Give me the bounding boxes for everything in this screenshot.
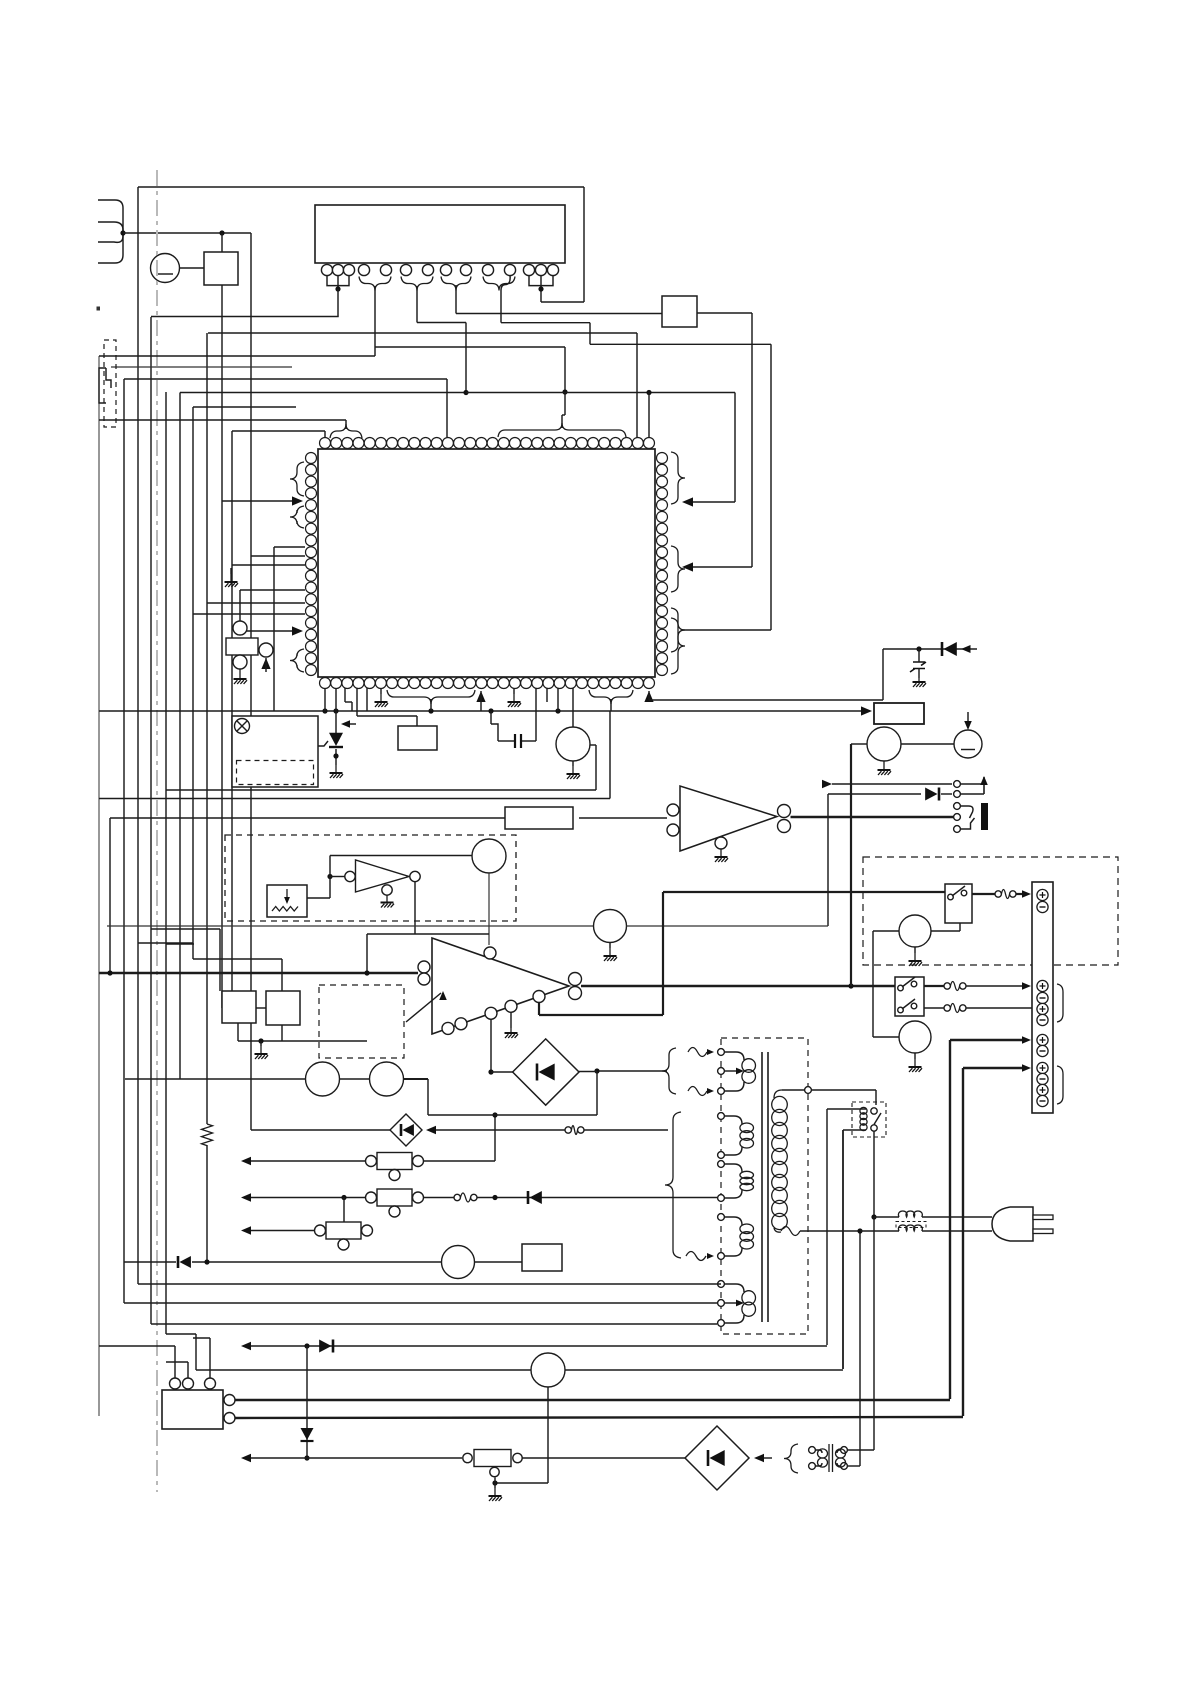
wire [873, 1217, 875, 1450]
fuse F406 [454, 1194, 460, 1200]
transistor Q351 [472, 839, 506, 873]
wire [874, 1216, 899, 1218]
wire [335, 688, 337, 711]
secondary windings [718, 1113, 725, 1120]
adjust arrow [406, 993, 441, 1022]
filter (dashed) [319, 985, 404, 1058]
wire [579, 817, 667, 819]
wire [751, 313, 753, 567]
wire [510, 1012, 512, 1028]
wire [241, 1193, 251, 1201]
wire [490, 1019, 492, 1072]
resistor R101 [202, 1124, 213, 1146]
winding terminal [718, 1049, 725, 1056]
wire [822, 780, 832, 788]
wire [180, 267, 205, 269]
wire [404, 1078, 429, 1080]
wire [584, 1129, 668, 1131]
wire [343, 1198, 345, 1223]
pin [485, 1007, 497, 1019]
wire [681, 629, 771, 631]
wire [595, 745, 597, 790]
fuse F401 [995, 891, 1001, 897]
transistor Q501 [306, 1062, 340, 1096]
pin group brace [290, 506, 304, 528]
IC U301 left pins [306, 453, 317, 464]
wire (thick) [963, 1067, 1022, 1069]
wire [424, 1197, 455, 1199]
wire (thick) [235, 1417, 963, 1418]
pin group brace [671, 452, 685, 504]
zener diode D303 [910, 662, 926, 672]
brace [784, 1444, 798, 1473]
wire [475, 1261, 523, 1263]
fuse F403 [944, 1005, 950, 1011]
switch S401 [945, 884, 972, 923]
capacitor C301 [515, 734, 521, 748]
wire [564, 347, 566, 415]
IC U301 top pins [320, 438, 331, 449]
wire [125, 1078, 306, 1080]
wire [241, 1226, 251, 1234]
wire [150, 317, 152, 1324]
EQ amp Q353 [222, 991, 256, 1023]
diode D405 [177, 1256, 180, 1268]
transistor Q402 [954, 730, 982, 758]
wire (thick) [950, 1039, 1022, 1041]
transistor Q302 [556, 727, 590, 761]
IC U301 bottom pins [320, 678, 331, 689]
wire [345, 420, 347, 429]
wire [241, 1157, 251, 1165]
pin group brace [483, 277, 515, 291]
wire [495, 1482, 548, 1484]
relay K401 (dashed) [852, 1102, 886, 1137]
wire [251, 1129, 390, 1131]
wire [851, 743, 867, 745]
op-amp IC352 [356, 860, 410, 892]
wire [627, 925, 829, 927]
terminal group bracket [1057, 984, 1063, 1022]
fuse F408 [686, 1252, 706, 1261]
wire [572, 688, 574, 727]
pin [569, 973, 582, 986]
diode D403 [332, 1340, 335, 1353]
wire [207, 602, 305, 604]
pin group brace [441, 277, 471, 291]
wire [237, 1023, 239, 1041]
wire [123, 379, 125, 1303]
ground [914, 1053, 916, 1059]
wire [540, 289, 542, 302]
wire [281, 959, 283, 991]
wire [366, 688, 368, 711]
wire [99, 355, 375, 357]
op-amp IC351 [680, 786, 777, 851]
wire [565, 1369, 843, 1371]
wire [209, 1338, 211, 1378]
wire [221, 285, 223, 1008]
wire [231, 431, 233, 1008]
pin [418, 961, 430, 973]
terminal group bracket [1057, 1066, 1063, 1104]
wire [219, 929, 221, 991]
diode D404 [301, 1440, 314, 1442]
connector CN103 [99, 368, 106, 403]
pin group brace [359, 277, 391, 291]
wire [166, 789, 596, 791]
wire [529, 276, 553, 286]
wire [99, 798, 610, 800]
wire [344, 688, 346, 702]
connector CN101 [98, 200, 123, 263]
wire [124, 1261, 176, 1263]
wire [193, 406, 296, 408]
wire [193, 958, 282, 960]
wire [193, 613, 305, 615]
bridge rectifier BR401 [513, 1039, 579, 1105]
thyristor D301 [335, 711, 337, 737]
wire [692, 566, 752, 568]
wire [324, 688, 326, 711]
wire [491, 1071, 513, 1073]
pin group brace [290, 462, 304, 496]
wire [842, 1130, 844, 1369]
wire [610, 699, 612, 711]
wire [883, 648, 977, 650]
wire [340, 1078, 370, 1080]
ground [572, 761, 574, 766]
wire [256, 1007, 266, 1009]
wire [465, 323, 467, 393]
wire [232, 430, 325, 432]
wire [138, 186, 584, 188]
wire (thick) [791, 816, 958, 818]
wire [179, 393, 181, 1080]
relay contact [871, 1108, 877, 1114]
wire [241, 1454, 251, 1462]
IC U301 right pins [657, 453, 668, 464]
wire [692, 501, 735, 503]
muting circuit (dashed) [225, 835, 516, 921]
wire [414, 882, 416, 934]
wire [306, 1346, 308, 1458]
pot R402 [377, 1189, 412, 1206]
wire [827, 794, 829, 926]
wire [827, 1108, 866, 1110]
wire [843, 1129, 866, 1131]
transistor Q403 [899, 915, 931, 947]
transistor Q502 [370, 1062, 404, 1096]
wire [151, 1323, 717, 1325]
transistor Q404 [899, 1021, 931, 1053]
wire [187, 1362, 189, 1378]
transformer box (dashed) [721, 1038, 808, 1334]
wire [941, 793, 952, 795]
fuse F405 [688, 1087, 707, 1096]
primary winding [805, 1087, 812, 1094]
EQ amp Q354 [266, 991, 300, 1025]
pin group brace [401, 277, 433, 291]
wire [166, 1333, 196, 1335]
wire [596, 1072, 598, 1116]
wire [972, 893, 995, 895]
ground [230, 568, 232, 574]
wire [501, 322, 590, 324]
wire [860, 1230, 899, 1232]
brace [662, 1048, 676, 1094]
wire [770, 344, 772, 630]
fuse F402 [944, 983, 950, 989]
wire [597, 1070, 667, 1072]
IC U304 [874, 703, 924, 724]
wire [192, 1261, 441, 1263]
pin [484, 947, 496, 959]
pin group brace [330, 424, 362, 438]
wire [697, 312, 752, 314]
winding W5 [724, 1284, 744, 1292]
wire [138, 942, 193, 944]
wire [208, 332, 637, 334]
pin [442, 1022, 454, 1034]
wire [98, 356, 100, 1416]
wire [859, 1231, 861, 1466]
power switch S1 [204, 252, 238, 285]
wire [609, 711, 611, 799]
photocoupler PC301 [232, 716, 318, 787]
wire [427, 1079, 429, 1115]
IC U201 pins [321, 264, 332, 275]
wire [138, 1283, 721, 1285]
wire [488, 873, 490, 945]
ground [609, 943, 611, 949]
pin 11 wire [501, 276, 510, 323]
transistor Q503 [531, 1353, 565, 1387]
IC U301 [318, 449, 655, 677]
wire [428, 1114, 597, 1116]
wire [327, 874, 332, 879]
wire [109, 818, 111, 973]
wire [546, 688, 548, 702]
wire [196, 1369, 531, 1371]
wire [124, 1302, 717, 1304]
resistor R351 [505, 807, 573, 829]
wire [477, 1197, 717, 1199]
wire [964, 721, 972, 730]
ground [513, 688, 515, 694]
AC plug P401 [992, 1207, 1033, 1241]
pin [569, 987, 582, 1000]
wire [107, 925, 593, 927]
pin group brace [387, 690, 475, 704]
chassis boundary line [156, 170, 158, 1492]
IC U303 [398, 726, 437, 750]
diode D401 [527, 1191, 530, 1204]
pot R502 [463, 1453, 472, 1462]
wire (thick) [850, 744, 852, 986]
wire [327, 276, 349, 286]
pin [418, 973, 430, 985]
pin group brace [671, 608, 685, 652]
ground [914, 947, 916, 953]
wire [754, 1454, 764, 1462]
wire [648, 393, 650, 438]
wire [206, 333, 208, 1124]
connector (dashed) CN102 [104, 340, 116, 427]
wire [123, 232, 251, 234]
fuse F407 [565, 1127, 571, 1133]
wire [367, 933, 489, 935]
LDR R352 [267, 885, 307, 917]
line filter L401 [898, 1211, 922, 1217]
regulator IC501 [162, 1390, 223, 1429]
wire [724, 1302, 736, 1304]
wire [192, 407, 194, 959]
wire [561, 415, 563, 428]
wire [873, 930, 899, 932]
wire [416, 286, 418, 323]
pin group brace [671, 618, 685, 674]
wire [734, 393, 736, 503]
wire [924, 985, 944, 987]
primary winding W1 [724, 1052, 744, 1060]
switch S402 [895, 977, 924, 1016]
wire [522, 740, 536, 742]
ground [380, 688, 382, 694]
bridge rectifier BR402 [685, 1426, 749, 1490]
wire [579, 1071, 597, 1073]
relay coil [860, 1107, 867, 1114]
transistor Q504 [442, 1246, 475, 1279]
wire [222, 500, 296, 502]
diode D302 [941, 642, 944, 656]
wire [490, 711, 492, 724]
pin group brace [498, 423, 626, 437]
wire [636, 333, 638, 437]
power amp IC301 [432, 938, 569, 1034]
wire [476, 691, 485, 702]
wire [99, 1345, 175, 1347]
terminal [224, 1395, 235, 1406]
wire [232, 564, 305, 566]
wire [261, 658, 270, 669]
transistor Q301 [233, 621, 247, 635]
wire [165, 392, 167, 1334]
wire [649, 699, 883, 701]
fuse F404 [688, 1048, 707, 1057]
wire [240, 589, 305, 591]
brace [665, 1112, 681, 1258]
transformer T402 [809, 1447, 816, 1454]
wire [111, 366, 292, 368]
transistor Q352 [594, 910, 627, 943]
winding terminal [718, 1281, 725, 1288]
pot R403 [326, 1222, 361, 1239]
switch unit (dashed) [863, 857, 1118, 965]
indicator lamp PL1 [151, 254, 180, 283]
wire [882, 649, 884, 700]
wire [590, 744, 596, 746]
headphone jack J351 [954, 781, 961, 788]
wire [241, 1342, 251, 1350]
wire [251, 555, 305, 557]
wire [901, 743, 954, 745]
wire [644, 691, 653, 702]
wire (thick) [235, 1399, 950, 1401]
wire [446, 379, 448, 437]
wire [124, 378, 447, 380]
terminal [170, 1378, 181, 1389]
wire [374, 286, 376, 356]
wire [151, 928, 220, 930]
wire [166, 943, 194, 945]
rectifier D402 [390, 1114, 422, 1146]
wire (thick) [99, 972, 418, 975]
pin group brace [589, 690, 633, 704]
wire [250, 233, 252, 1130]
wire [931, 930, 960, 932]
wire [924, 1007, 944, 1009]
wire [99, 419, 346, 421]
transistor Q401 [867, 727, 901, 761]
wire [99, 710, 864, 712]
wire [110, 817, 505, 819]
wire [180, 392, 466, 394]
wire [424, 1160, 496, 1162]
wire [456, 313, 662, 315]
wire [137, 187, 139, 1284]
wire (thick) [581, 985, 895, 987]
wire [426, 1126, 436, 1134]
pin group brace [671, 546, 685, 592]
wire [151, 316, 339, 318]
wire [583, 187, 585, 302]
IC U202 [662, 296, 697, 327]
wire [873, 1036, 899, 1038]
wire [356, 688, 358, 716]
wire (thick) [538, 1002, 540, 1015]
pin group brace [290, 649, 304, 672]
IC U201 [315, 205, 565, 263]
wire [466, 392, 735, 394]
IC U501 [522, 1244, 562, 1271]
wire [547, 1387, 549, 1483]
wire [826, 1109, 828, 1345]
speaker terminal strip TB401 [1032, 882, 1053, 1113]
wire [240, 630, 296, 632]
wire [221, 233, 223, 252]
wire [430, 699, 432, 711]
wire [873, 1131, 875, 1217]
wire [522, 1457, 685, 1459]
pot R401 [377, 1153, 412, 1170]
core [761, 1052, 763, 1322]
wire [274, 546, 305, 548]
wire [589, 323, 591, 345]
wire [590, 343, 771, 345]
wire [455, 285, 457, 314]
diode D351 [938, 788, 941, 801]
wire [557, 688, 559, 711]
wire [724, 1070, 736, 1072]
wire [875, 1090, 877, 1105]
stray mark [97, 307, 101, 311]
wire [541, 301, 584, 303]
